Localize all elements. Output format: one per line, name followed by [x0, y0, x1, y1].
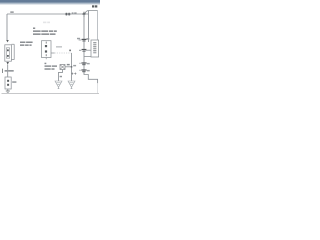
- node A label "4B" above top-left corner: [10, 11, 13, 12]
- label D1: [77, 38, 80, 39]
- label near G1 wire: [60, 76, 62, 77]
- title bar: [0, 0, 100, 5]
- label T1 right text: [20, 42, 33, 46]
- wire: far-right drop to box U2: [97, 11, 99, 41]
- label F1 value: [72, 12, 74, 14]
- junction dot: [71, 66, 73, 68]
- arrow into transformer T1: [6, 40, 9, 42]
- wire: upper-right riser x=88.5: [88, 11, 90, 43]
- pin: U2 pin1 wire: [86, 49, 92, 51]
- wire: bottom-right return path: [84, 72, 98, 83]
- switch S1 at junction x=84 on top wire: [83, 12, 86, 17]
- connector U2 box right: [91, 40, 99, 57]
- wire: faint right drop to bottom rail: [97, 83, 99, 93]
- wire: middle riser x=71.5: [71, 53, 73, 81]
- annotation text block center-top: [33, 28, 57, 35]
- label B+ near center wire: [56, 46, 62, 47]
- capacitor C3 on right bus: [81, 69, 86, 72]
- bottom rail wire: [2, 93, 100, 95]
- outlet J2 center box: [42, 41, 52, 60]
- transformer T1 box: [5, 45, 12, 61]
- wire: lamp bottom to ground G1: [59, 70, 63, 82]
- lamp DS1: [60, 65, 65, 70]
- label top-right "0.5W": [92, 5, 94, 7]
- wire: C3 left tick: [79, 69, 81, 71]
- blob below T1: [6, 62, 9, 65]
- label C2: [87, 63, 90, 64]
- capacitor C1 on right bus: [79, 49, 86, 52]
- crosses near riser: [71, 73, 76, 75]
- wire: left vertical from node: [6, 14, 8, 41]
- wire: T1 to P1: [7, 65, 9, 77]
- fuse F1 on top wire: [65, 13, 70, 16]
- wire: top horizontal L1: [7, 13, 89, 15]
- wire: right bus vertical x=84: [83, 14, 85, 74]
- faint watermark dots: [43, 22, 46, 24]
- ground G1 triangle: [55, 81, 62, 89]
- label plug: [12, 81, 16, 83]
- diode D1 on right bus: [82, 39, 87, 42]
- wire: top-right horizontal y=10.5: [85, 11, 98, 15]
- ground under P1: [7, 89, 9, 91]
- label C3: [87, 70, 90, 71]
- ground G2 triangle: [68, 81, 75, 89]
- label P1: [2, 69, 4, 73]
- capacitor C2 on right bus: [81, 62, 86, 65]
- wire: C2 left tick: [79, 62, 81, 64]
- wire: D1 left tick: [79, 39, 82, 41]
- pin: U2 pin2 wire: [84, 56, 91, 58]
- label right of junction: [73, 65, 76, 66]
- label lamp right: [67, 64, 70, 65]
- label lamp left text: [45, 63, 58, 70]
- wire: lamp to riser: [65, 66, 72, 68]
- pin: T1 right pins: [12, 44, 15, 59]
- wire: center box to riser (faint): [51, 52, 55, 54]
- plug P1 box: [5, 77, 11, 89]
